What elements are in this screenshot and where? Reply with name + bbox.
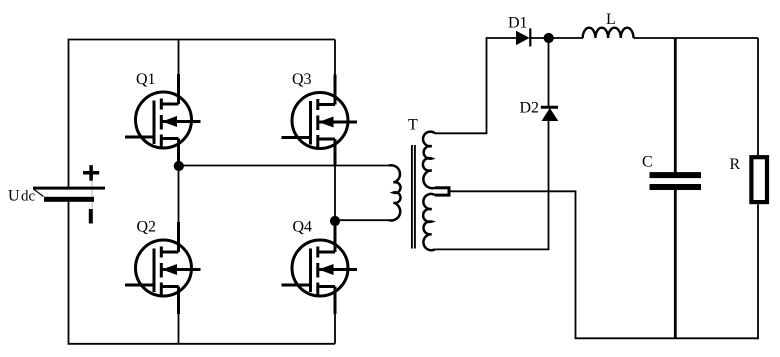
svg-text:R: R <box>730 156 741 173</box>
wire left leg middle <box>178 164 180 223</box>
transistor Q1 <box>125 74 201 166</box>
transistor Q3 <box>282 75 358 167</box>
transformer T secondary upper winding <box>423 132 435 189</box>
svg-text:Q4: Q4 <box>293 219 313 236</box>
wire right vertical to R <box>757 38 759 156</box>
capacitor C lead bottom <box>674 190 677 338</box>
wire left leg lower <box>178 312 180 344</box>
wire D1 to node <box>531 37 549 39</box>
svg-text:U: U <box>8 187 20 204</box>
svg-text:C: C <box>642 154 653 171</box>
wire right leg middle <box>334 165 336 223</box>
wire L to right corner <box>634 37 759 39</box>
wire node to L <box>549 37 583 39</box>
svg-text:dc: dc <box>21 188 36 204</box>
svg-text:Q1: Q1 <box>136 71 156 88</box>
capacitor C <box>650 172 702 190</box>
capacitor C lead top <box>674 38 677 173</box>
transistor Q4 <box>282 222 358 314</box>
wire center tap to bottom rail <box>449 191 758 338</box>
svg-text:T: T <box>408 117 418 134</box>
diode D1 <box>516 28 530 46</box>
battery Udc <box>33 165 105 223</box>
wire secondary top <box>435 38 517 133</box>
svg-text:D2: D2 <box>520 99 540 116</box>
wire bridge output top <box>179 165 391 167</box>
node A junction dot (Q1/Q2) <box>174 161 184 171</box>
node B junction dot (Q3/Q4) <box>330 216 340 226</box>
svg-text:L: L <box>606 11 616 28</box>
diode D2 <box>541 107 559 121</box>
node C junction dot (D1/D2/L) <box>544 33 554 43</box>
wire battery bottom lead <box>68 198 70 344</box>
wire top rail <box>69 39 336 41</box>
transformer T primary winding <box>389 165 401 220</box>
wire battery top lead <box>68 39 70 188</box>
wire bottom rail <box>68 343 335 345</box>
transistor Q2 <box>125 222 201 314</box>
wire right leg upper <box>334 40 336 77</box>
transformer core <box>411 145 413 249</box>
wire R bottom <box>757 204 759 339</box>
wire secondary bottom <box>435 121 549 249</box>
transformer T secondary lower winding <box>423 194 435 250</box>
wire node to D2 <box>548 38 550 106</box>
svg-text:Q2: Q2 <box>137 219 157 236</box>
center tap stubs <box>435 186 449 189</box>
wire right leg lower <box>334 312 336 344</box>
svg-text:D1: D1 <box>508 14 528 31</box>
resistor R <box>751 157 767 202</box>
inductor L <box>583 28 634 38</box>
wire bridge output bottom <box>335 219 390 221</box>
wire left leg upper <box>178 40 180 77</box>
svg-text:Q3: Q3 <box>292 71 312 88</box>
